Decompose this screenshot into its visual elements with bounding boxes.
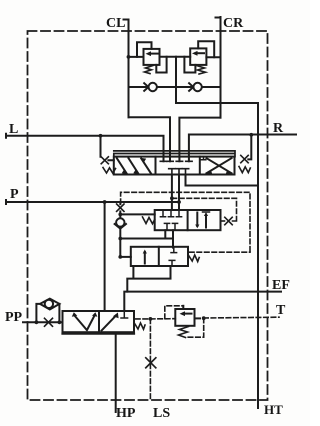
valve V2 right box arrows	[196, 213, 198, 227]
wire RV2 outlet	[184, 57, 195, 73]
relief valve RV2 body	[190, 48, 206, 65]
main valve V1 right box crossed arrows	[207, 158, 232, 173]
node P junction	[103, 200, 107, 204]
orifice X2 on PP line	[45, 318, 53, 326]
port L line	[6, 134, 164, 162]
port R line	[189, 135, 296, 162]
priority valve V4 right box arrow	[102, 316, 117, 331]
main valve V1 center box blocked ports	[160, 157, 166, 162]
pilot relief valve V5 body	[175, 309, 194, 326]
check valve CV4 bypass	[36, 304, 59, 322]
orifice X1 on P sense line	[119, 202, 121, 204]
main valve V1 left box arrows	[117, 158, 151, 173]
svg-text:T: T	[276, 303, 286, 318]
wire V3 bottom loop	[127, 266, 170, 292]
svg-text:LS: LS	[153, 406, 170, 421]
port PP line	[23, 321, 63, 323]
LS pilot dashed trunk	[121, 192, 250, 252]
svg-text:L: L	[9, 122, 18, 137]
node sense junction	[118, 213, 122, 217]
port EF line	[124, 292, 281, 311]
relief valve RV2 pilot line	[198, 41, 214, 57]
main valve V1 left spring	[103, 168, 116, 174]
valve V3 pilot dashed	[190, 251, 251, 253]
main valve V1 left pilot	[101, 136, 114, 161]
wire sense to valve V2	[120, 213, 154, 215]
dashed enclosure border	[28, 31, 268, 400]
V5 outlet	[195, 317, 201, 319]
valve V2 right pilot X	[221, 220, 225, 222]
main valve V1 right pilot	[248, 135, 251, 160]
relief valve RV1 pilot line	[137, 42, 152, 57]
valve V2 pilot dashed to main valve line	[172, 198, 237, 221]
wire V1 tank to drain line	[186, 175, 259, 186]
valve V3 body	[131, 247, 188, 266]
wire V2 bottom drops	[165, 230, 173, 247]
valve V3 right box blocked ports	[171, 247, 177, 253]
wire P feed to V4	[104, 202, 106, 311]
main valve V1 right spring	[239, 167, 250, 173]
relief valve RV1 body	[144, 49, 160, 65]
relief valve RV2 spring	[197, 66, 206, 75]
priority valve V4 spring	[134, 323, 145, 330]
node L junction	[99, 134, 103, 138]
svg-text:CR: CR	[223, 16, 244, 31]
orifice X3 on LS line	[146, 358, 156, 368]
port CR line	[216, 17, 221, 118]
V5 drain dashed	[187, 318, 204, 337]
node to V2 bottom line	[118, 237, 122, 241]
relief valve RV2 arrow	[196, 52, 205, 54]
priority valve V4 left box arrows	[75, 316, 95, 331]
LS dashed line down	[149, 319, 151, 400]
node PP junction 2	[58, 320, 62, 324]
svg-text:P: P	[10, 187, 19, 202]
node P to V2 junction	[177, 200, 181, 204]
wire V1 to valve V2	[171, 175, 173, 211]
V4 pilot dashed to node	[136, 318, 151, 320]
svg-text:HP: HP	[116, 406, 136, 421]
wire make-up check line	[129, 86, 221, 88]
priority valve V4 blocked EF stub	[121, 311, 128, 318]
node PP junction 1	[35, 320, 39, 324]
wire CL to valve port	[129, 117, 171, 161]
node T junction	[202, 316, 206, 320]
wire center drain	[176, 57, 258, 103]
wire center net	[160, 56, 191, 58]
valve V2 body	[155, 210, 221, 230]
svg-text:PP: PP	[5, 310, 23, 325]
main valve V1 body	[114, 157, 235, 175]
pilot relief valve V5 arrow	[183, 313, 192, 315]
V5 pilot dashed input	[150, 318, 175, 320]
check valve CV1	[149, 83, 157, 91]
valve V3 left box arrow	[144, 252, 146, 264]
port T dashed line	[204, 316, 279, 319]
node to V3 inlet	[118, 255, 122, 259]
main valve V1 pilot crossover	[114, 151, 235, 157]
valve V2 left box blocked ports	[160, 210, 165, 217]
valve V2 left spring	[143, 217, 155, 224]
check valve CV3	[116, 218, 124, 226]
relief valve RV1 arrow	[149, 53, 158, 55]
svg-text:CL: CL	[106, 16, 125, 31]
valve V3 right spring	[188, 255, 199, 262]
node pilot junction on V1-V2 line	[170, 196, 174, 200]
relief valve RV1 spring	[145, 66, 154, 74]
wire V4 to HP	[115, 334, 117, 412]
pilot relief valve V5 spring	[179, 327, 189, 338]
wire to V3 inlet	[120, 256, 131, 258]
port P line	[6, 200, 179, 204]
port CL line	[124, 20, 129, 118]
main valve V1 right box tick	[201, 157, 206, 160]
wire to V2 bottom ports	[120, 238, 173, 240]
node CL inlet junction	[127, 55, 131, 59]
node R junction	[249, 133, 253, 137]
wire V1 to P line	[178, 175, 180, 211]
V5 vent dashed	[165, 306, 184, 319]
wire RV1 outlet	[156, 57, 166, 73]
wire CR to valve port	[179, 118, 220, 162]
tank line to HT	[257, 103, 259, 408]
node LS junction	[149, 317, 153, 321]
wire RV2 inlet from CR	[206, 56, 220, 58]
check valve CV2	[193, 83, 201, 91]
priority valve V4 body	[63, 311, 135, 332]
wire CL to relief RV1	[129, 56, 144, 58]
svg-text:HT: HT	[264, 402, 283, 417]
